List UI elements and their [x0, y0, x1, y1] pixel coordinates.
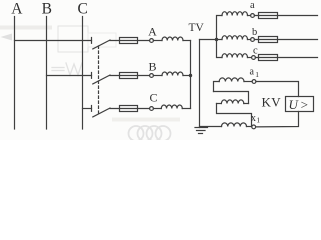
relay box KV	[286, 97, 314, 112]
terminal circle C	[150, 107, 154, 111]
junction star neutral / row b	[215, 38, 218, 41]
watermark arrow left edge	[1, 34, 13, 41]
switch QS contact tick row A	[91, 38, 93, 44]
svg-text:U>: U>	[289, 97, 311, 112]
svg-text:c: c	[253, 46, 258, 57]
open delta winding II left lead	[217, 103, 222, 105]
wire coil b to terminal	[248, 39, 251, 41]
terminal circle A	[150, 39, 154, 43]
switch QS blade row C	[93, 108, 110, 117]
wire terminal c to fuse and right	[255, 57, 317, 59]
junction primary neutral / phase B	[189, 74, 192, 77]
terminal circle a	[251, 14, 255, 18]
svg-text:KV: KV	[262, 94, 282, 109]
wire row A blade to fuse	[110, 40, 150, 42]
svg-text:1: 1	[255, 70, 259, 79]
switch QS contact tick row B	[91, 73, 93, 79]
svg-text:b: b	[252, 27, 257, 38]
terminal label C	[149, 90, 157, 104]
svg-text:C: C	[149, 90, 157, 104]
TV label	[189, 22, 205, 34]
watermark faint box near bus C	[58, 26, 88, 52]
svg-text:a: a	[250, 0, 255, 11]
terminal circle B	[150, 74, 154, 78]
terminal label A	[148, 24, 157, 38]
wire row A from bus A to switch	[15, 40, 92, 42]
secondary winding a	[222, 12, 248, 16]
fuse FU1 row A	[120, 38, 138, 44]
wire terminal a to fuse and right	[254, 15, 317, 17]
primary winding phase B	[162, 72, 183, 76]
wire relay to x1	[256, 112, 299, 127]
wire row b from grounded neutral	[217, 39, 223, 41]
busbar A	[14, 17, 16, 130]
wire coil I to terminal a1	[244, 81, 252, 83]
wire coil c to terminal	[248, 57, 252, 59]
svg-text:a: a	[249, 66, 254, 77]
grounded neutral vertical	[199, 40, 201, 128]
terminal circle a1	[252, 80, 256, 84]
KV label	[262, 94, 282, 109]
watermark faint band top left	[0, 26, 52, 30]
secondary winding b	[222, 36, 248, 40]
svg-text:A: A	[148, 24, 157, 38]
terminal label B	[148, 59, 156, 73]
open delta winding II coil	[221, 100, 243, 104]
wire row B blade to fuse	[110, 75, 150, 77]
bus B label	[42, 1, 52, 18]
wire row C blade to fuse	[110, 108, 150, 110]
secondary star neutral vertical	[217, 16, 223, 58]
fuse row b	[259, 37, 278, 43]
busbar B	[46, 17, 48, 130]
open delta winding III left lead from ground wire	[200, 126, 222, 128]
svg-text:C: C	[78, 1, 88, 18]
ganged switch linkage dashed	[98, 46, 100, 113]
watermark faint box 2	[88, 33, 116, 47]
switch QS blade row B	[93, 75, 110, 84]
svg-text:x: x	[251, 113, 256, 124]
busbar C	[82, 17, 84, 130]
fuse row a	[259, 13, 278, 19]
terminal label x1	[251, 113, 261, 125]
wire row B from bus B to switch	[47, 75, 92, 77]
switch QS contact tick row C	[91, 106, 93, 112]
open delta winding I coil	[219, 78, 244, 82]
svg-text:B: B	[148, 59, 156, 73]
wire row B coil to neutral	[183, 75, 191, 77]
wire row A coil to neutral	[183, 40, 191, 42]
wire coil III to terminal x1	[247, 126, 252, 128]
secondary winding c	[222, 54, 248, 58]
ground symbol	[195, 127, 208, 129]
terminal label a1	[249, 66, 259, 78]
terminal label c	[253, 46, 258, 57]
switch QS blade row A	[93, 40, 110, 49]
wire neutral to ground lead	[200, 39, 217, 41]
svg-text:B: B	[42, 1, 52, 18]
wire row C coil to neutral	[182, 108, 190, 110]
primary winding phase C	[161, 105, 182, 109]
fuse row c	[259, 55, 278, 61]
terminal label b	[252, 27, 257, 38]
wire row A to primary coil	[153, 40, 162, 42]
open delta winding III coil (x1 row)	[222, 123, 247, 127]
terminal label a	[250, 0, 255, 11]
wire row C to primary coil	[153, 108, 161, 110]
terminal circle x1	[252, 125, 256, 129]
svg-text:1: 1	[256, 116, 260, 125]
bus C label	[78, 1, 88, 18]
watermark W squiggle	[52, 63, 82, 75]
terminal circle c	[252, 56, 256, 60]
wire row B to primary coil	[153, 75, 162, 77]
open delta link bar 2	[217, 104, 252, 127]
bus A label	[11, 1, 23, 18]
open delta winding II right lead	[244, 103, 249, 105]
open delta link bar 1	[214, 92, 249, 104]
svg-text:A: A	[11, 1, 23, 18]
watermark faint band	[112, 118, 180, 122]
fuse FU3 row C	[120, 106, 138, 112]
wire row C from bus C to switch	[83, 108, 92, 110]
watermark rings bottom center	[129, 126, 171, 141]
primary neutral vertical	[190, 41, 192, 109]
fuse FU2 row B	[120, 73, 138, 79]
wire terminal b to fuse and right	[254, 39, 317, 41]
wire coil a to terminal	[248, 15, 251, 17]
primary winding phase A	[162, 37, 183, 41]
open delta winding I (a1 row) left corner	[214, 82, 220, 92]
svg-text:TV: TV	[189, 22, 205, 34]
terminal circle b	[251, 38, 255, 42]
relay element U>	[289, 97, 311, 112]
wire a1 to relay loop	[256, 82, 299, 97]
